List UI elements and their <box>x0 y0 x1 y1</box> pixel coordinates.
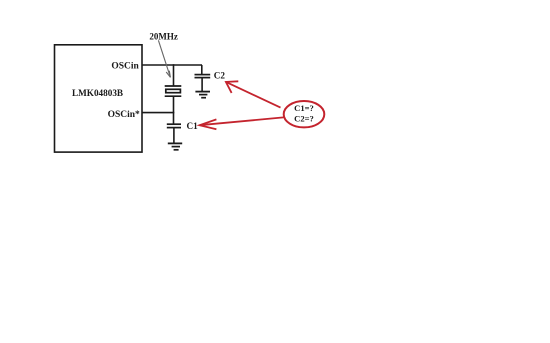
svg-text:C2=?: C2=? <box>294 114 314 124</box>
svg-text:C1=?: C1=? <box>294 103 314 113</box>
svg-text:C1: C1 <box>187 121 199 131</box>
svg-text:C2: C2 <box>214 71 226 81</box>
svg-text:OSCin*: OSCin* <box>108 110 140 120</box>
svg-text:LMK04803B: LMK04803B <box>72 88 123 98</box>
svg-text:20MHz: 20MHz <box>149 31 178 41</box>
svg-text:OSCin: OSCin <box>111 61 139 71</box>
